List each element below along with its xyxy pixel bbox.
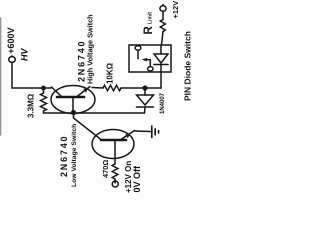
- svg-text:0V Off: 0V Off: [132, 165, 142, 193]
- node junction Q1 base: [71, 110, 76, 115]
- wire Q2 emitter to ground: [135, 130, 151, 133]
- wire 10K to PIN box bottom: [121, 87, 161, 89]
- svg-text:HV: HV: [20, 48, 30, 61]
- wire base rail y=113 from 3.3M to 1N4007 cathode: [44, 112, 145, 114]
- diode D1 1N4007: [137, 88, 154, 113]
- resistor 470Ω: [112, 164, 118, 181]
- switch symbol inside box: [135, 46, 153, 71]
- svg-text:3.3MΩ: 3.3MΩ: [27, 93, 36, 118]
- svg-text:2N6740: 2N6740: [59, 135, 69, 177]
- svg-text:Low Voltage Switch: Low Voltage Switch: [71, 124, 78, 187]
- terminal +600V: [9, 56, 16, 63]
- wire Q1 base to Q2 collector diagonal: [74, 113, 102, 140]
- wire from +600V terminal down and right to Q1 emitter: [12, 62, 51, 88]
- svg-text:10KΩ: 10KΩ: [106, 62, 115, 84]
- resistor R_Limit: [160, 11, 165, 45]
- svg-text:PIN Diode Switch: PIN Diode Switch: [183, 31, 193, 101]
- ground: [152, 126, 159, 138]
- svg-text:Limit: Limit: [148, 12, 154, 24]
- svg-text:R: R: [143, 26, 155, 35]
- label R Limit: [143, 12, 155, 35]
- PIN diode inside box: [154, 45, 168, 72]
- wire PIN box bottom lead: [160, 72, 162, 88]
- resistor 10KΩ horizontal: [103, 85, 121, 91]
- svg-text:High Voltage Switch: High Voltage Switch: [86, 14, 95, 84]
- transistor Q2 2N6740 low voltage switch: [92, 130, 135, 165]
- terminal +12V: [160, 5, 166, 12]
- terminal +12V On / 0V Off: [112, 181, 118, 188]
- PIN diode switch box: [129, 45, 171, 72]
- svg-text:470Ω: 470Ω: [101, 160, 110, 178]
- wire Q1 collector to 10K: [92, 87, 103, 90]
- node junction 3.3M top: [41, 86, 46, 91]
- svg-text:+600V: +600V: [6, 28, 16, 54]
- svg-text:1N4007: 1N4007: [160, 92, 166, 114]
- scan border artifact left edge: [0, 18, 2, 135]
- resistor 3.3MΩ: [41, 88, 47, 113]
- svg-text:+12V: +12V: [171, 1, 180, 19]
- node junction 1N4007 anode: [142, 85, 147, 90]
- transistor Q1 2N6740 high voltage switch: [51, 86, 95, 114]
